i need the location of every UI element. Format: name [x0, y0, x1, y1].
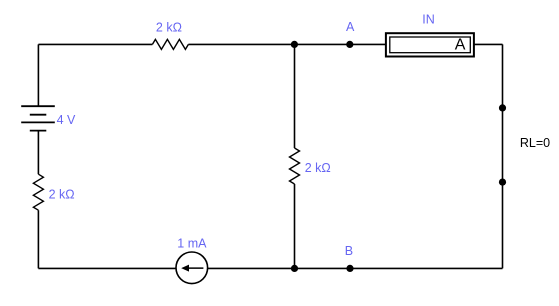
svg-text:IN: IN [422, 13, 435, 27]
wire bottom segment right (current source to corner) [208, 267, 503, 269]
svg-text:A: A [455, 37, 466, 54]
current source I1 [176, 252, 208, 284]
svg-text:2 kΩ: 2 kΩ [156, 20, 182, 34]
junction dot right lower [499, 179, 506, 186]
wire bottom segment left (corner to current source) [38, 267, 176, 269]
resistor R1 2 kOhm (top horizontal) [152, 39, 188, 49]
svg-text:2 kΩ: 2 kΩ [305, 161, 331, 175]
svg-text:4 V: 4 V [57, 113, 76, 127]
wire top segment left (battery to R1) [38, 43, 152, 45]
resistor R2 2 kOhm (middle vertical) [290, 148, 300, 184]
junction dot node A [346, 41, 353, 48]
wire middle branch lower (R2 to bottom wire) [294, 184, 296, 268]
battery V1 [21, 106, 55, 130]
wire left segment middle (battery to R3) [37, 131, 39, 175]
wire middle branch upper (node A junction to R2) [294, 44, 296, 148]
ammeter U1 (IN) [386, 33, 474, 56]
wire left segment upper (top corner to battery) [37, 44, 39, 106]
svg-text:1 mA: 1 mA [177, 237, 207, 251]
junction dot branch bottom [291, 265, 298, 272]
junction dot node B [346, 265, 353, 272]
wire right segment (top corner to bottom corner) [502, 44, 504, 268]
wire top segment (R1 to ammeter) [188, 43, 386, 45]
wire left segment lower (R3 to bottom corner) [37, 210, 39, 268]
junction dot node A branch top [291, 41, 298, 48]
svg-text:2 kΩ: 2 kΩ [49, 188, 75, 202]
svg-text:A: A [346, 20, 355, 34]
junction dot right upper [499, 104, 506, 111]
svg-text:RL=0: RL=0 [520, 136, 550, 150]
resistor R3 2 kOhm (left vertical) [33, 174, 43, 210]
svg-text:B: B [345, 244, 353, 258]
wire top segment right (ammeter to corner) [474, 43, 503, 45]
